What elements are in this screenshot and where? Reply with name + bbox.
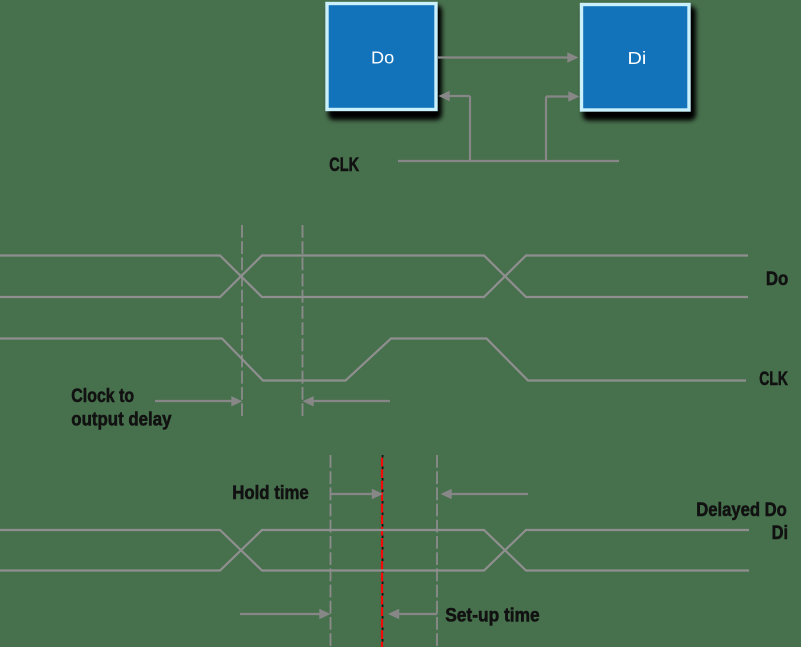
wire clock stub to Do	[449, 95, 471, 97]
red dashed clock-edge reference line (black under-dashes)	[382, 455, 384, 647]
svg-text:Di: Di	[628, 48, 647, 68]
svg-text:output delay: output delay	[71, 410, 172, 431]
wire data Do to Di	[438, 56, 569, 58]
svg-text:CLK: CLK	[329, 155, 359, 176]
block Di (register input) U2	[582, 5, 697, 121]
arrowhead into Di clock pin	[568, 91, 579, 101]
block Do (register output) U1	[327, 4, 442, 121]
waveform CLK trace	[0, 339, 746, 381]
dashed marker line hold boundary (x=330.5)	[330, 455, 332, 647]
svg-text:Clock to: Clock to	[71, 386, 134, 407]
wire clock vertical near Do	[469, 96, 471, 161]
wire clock stub to Di	[546, 95, 570, 97]
dashed marker line at data valid (x=302.5)	[302, 225, 304, 417]
waveform Delayed Do rail A	[0, 530, 749, 571]
svg-text:Set-up time: Set-up time	[445, 606, 540, 627]
svg-text:Di: Di	[772, 523, 788, 544]
arrow set-up left (points right at x=330.5)	[240, 613, 321, 615]
arrowhead into Di data pin	[567, 52, 578, 62]
arrow clock-to-output right (points left at x=303)	[303, 396, 314, 406]
arrow hold time (points right at red line)	[331, 493, 375, 495]
wire CLK main line	[398, 160, 619, 162]
wire clock vertical near Di	[545, 97, 547, 162]
waveform Do rail B	[0, 256, 748, 298]
svg-text:Do: Do	[371, 48, 394, 68]
svg-text:Delayed Do: Delayed Do	[696, 500, 787, 521]
waveform Delayed Do rail B	[0, 530, 749, 571]
arrowhead into Do clock pin	[439, 91, 450, 101]
arrow clock-to-output left (points right at x=242)	[155, 400, 233, 402]
svg-text:CLK: CLK	[759, 369, 788, 390]
arrow from right (points left at x=441)	[441, 489, 452, 499]
dashed marker line setup boundary (x=437)	[436, 455, 438, 647]
svg-text:Hold time: Hold time	[232, 483, 309, 504]
dashed marker line at clock edge (x=242)	[241, 225, 243, 417]
waveform Do rail A	[0, 256, 748, 298]
arrow set-up (points left at red line)	[388, 609, 399, 619]
red dashed clock-edge reference line	[381, 455, 383, 647]
svg-text:Do: Do	[766, 269, 788, 290]
